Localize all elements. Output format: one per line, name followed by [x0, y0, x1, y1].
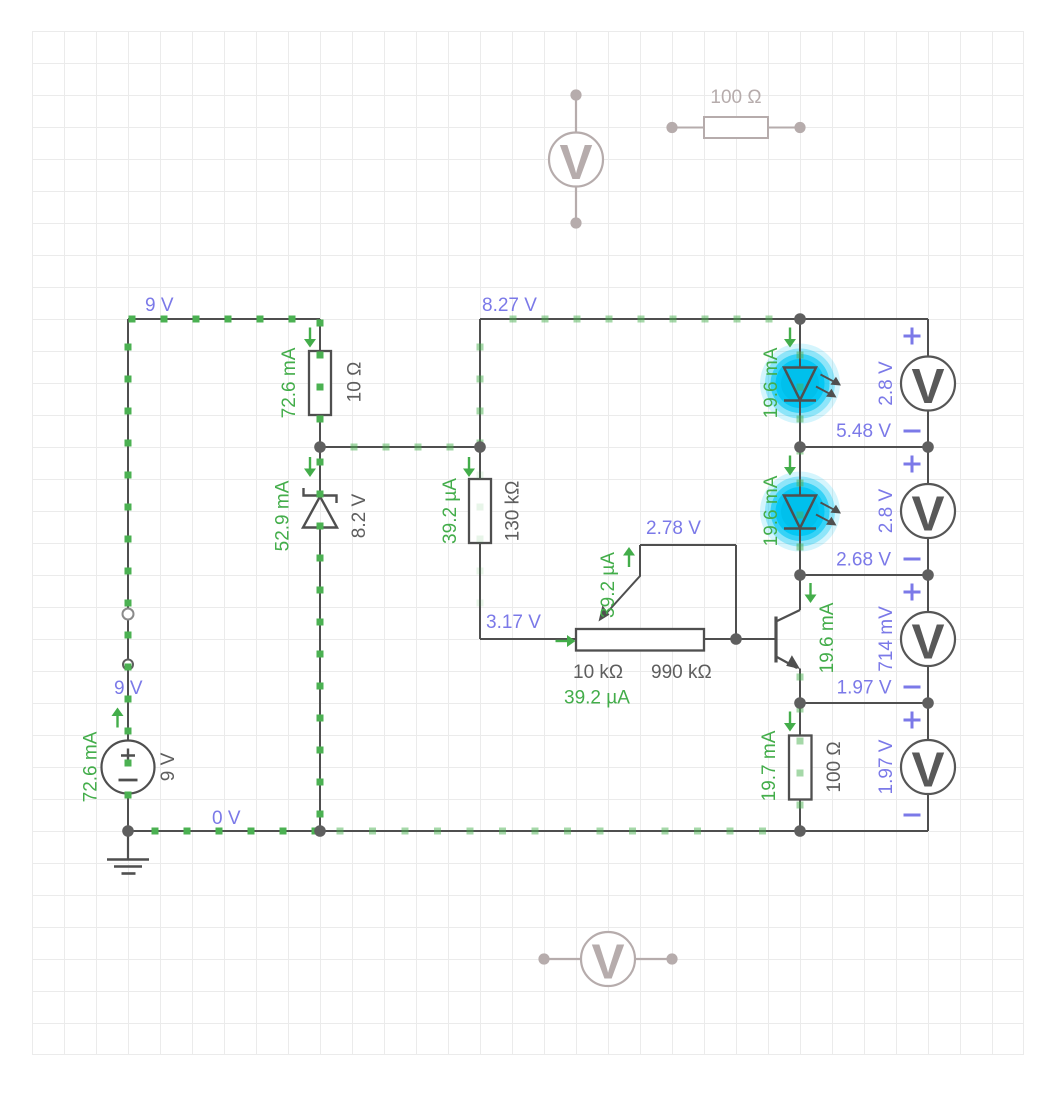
svg-text:130 kΩ: 130 kΩ [503, 481, 524, 542]
LED2 light arrows [816, 503, 839, 525]
transistor Q1 emitter lead [776, 657, 797, 669]
svg-text:8.2 V: 8.2 V [349, 493, 370, 538]
current dashes zener branch [317, 459, 324, 818]
transistor Q1 base bar [774, 617, 777, 663]
switch SW1 terminal top [123, 609, 134, 620]
current arrow into R4 [784, 712, 796, 732]
current dashes emitter wire [797, 674, 804, 713]
svg-text:9 V: 9 V [114, 678, 143, 699]
svg-text:9 V: 9 V [145, 295, 174, 316]
resistor R2 130k body [469, 479, 491, 543]
current arrow source current [112, 708, 124, 728]
resistor R4 100 ohm body [789, 736, 812, 800]
svg-text:1.97 V: 1.97 V [876, 739, 897, 794]
current dashes R1 branch [317, 320, 324, 423]
potentiometer R3 body [576, 629, 704, 651]
junction nodes [122, 313, 934, 837]
svg-text:990 kΩ: 990 kΩ [651, 662, 712, 683]
LED1 symbol [784, 368, 816, 401]
svg-text:52.9 mA: 52.9 mA [273, 480, 294, 551]
wire 0V bottom rail [128, 830, 928, 832]
svg-text:5.48 V: 5.48 V [836, 421, 891, 442]
svg-text:19.6 mA: 19.6 mA [761, 347, 782, 418]
zener diode D1 triangle [303, 497, 337, 528]
voltmeter minus mark y=687 [904, 686, 921, 689]
voltage source V1 minus [119, 779, 138, 782]
switch SW1 terminal bottom [123, 660, 133, 670]
resistor R1 10 ohm body [309, 351, 331, 415]
transistor Q1 collector lead [776, 610, 800, 622]
svg-text:19.6 mA: 19.6 mA [761, 475, 782, 546]
svg-text:2.8 V: 2.8 V [876, 488, 897, 533]
transistor Q1 emitter arrowhead [786, 655, 800, 669]
svg-text:19.7 mA: 19.7 mA [759, 730, 780, 801]
disconnected voltmeter VM5 top [549, 95, 603, 223]
wire 9V top horizontal [128, 318, 320, 320]
potentiometer R3 wiper arrowhead [599, 605, 610, 621]
current dashes 8.27V top wire [510, 316, 773, 323]
wire left vertical 9V source branch [127, 319, 129, 831]
current dashes R4 branch [797, 738, 804, 809]
svg-text:19.6 mA: 19.6 mA [817, 602, 838, 673]
current dashes bottom rail left [152, 828, 319, 835]
voltmeter plus mark y=720 [904, 712, 921, 729]
disconnected resistor R5 100 ohm [672, 117, 800, 138]
voltmeter plus mark y=464 [904, 456, 921, 473]
svg-text:39.2 µA: 39.2 µA [598, 552, 619, 618]
svg-text:2.78 V: 2.78 V [646, 518, 701, 539]
svg-text:9 V: 9 V [158, 752, 179, 781]
wire zener D1 branch [319, 447, 321, 831]
current dashes left wire [125, 344, 132, 799]
current arrow into R2 [463, 457, 475, 477]
current arrow into zener D1 [304, 457, 316, 477]
svg-text:2.68 V: 2.68 V [836, 550, 891, 571]
current dashes node link wire [351, 444, 454, 451]
current arrow into R1 [304, 328, 316, 348]
voltmeter VM2 [901, 484, 955, 541]
wire voltmeter taps [800, 447, 928, 703]
wire 8.27V top net [480, 319, 928, 447]
svg-text:100 Ω: 100 Ω [824, 741, 845, 792]
voltmeter plus mark y=336 [904, 328, 921, 345]
R5 terminals [666, 122, 805, 133]
disconnected voltmeter VM6 terminals [538, 953, 677, 964]
current arrow into pot R3 [556, 635, 576, 647]
current dashes bottom rail right [337, 828, 767, 835]
current arrow into LED1 [784, 328, 796, 348]
svg-text:39.2 µA: 39.2 µA [564, 688, 630, 709]
wire wiper net 2.78V [603, 545, 737, 639]
voltage source V1 plus [121, 749, 135, 763]
current dashes LED column [797, 352, 804, 551]
current dashes 9V top wire [129, 316, 296, 323]
wire collector stub [799, 575, 801, 610]
svg-text:10 Ω: 10 Ω [345, 362, 366, 403]
svg-text:72.6 mA: 72.6 mA [279, 347, 300, 418]
svg-text:10 kΩ: 10 kΩ [573, 662, 623, 683]
svg-text:3.17 V: 3.17 V [486, 612, 541, 633]
voltmeter VM1 [901, 357, 955, 414]
wire R4 branch stubs [799, 703, 801, 831]
wire voltmeter chain [927, 411, 929, 832]
disconnected voltmeter VM6 bottom [544, 932, 672, 986]
transistor Q1 base lead [736, 638, 775, 640]
voltmeter minus mark y=559 [904, 558, 921, 561]
svg-text:0 V: 0 V [212, 808, 241, 829]
current arrow into LED2 [784, 456, 796, 476]
glow of LED1 [760, 344, 840, 424]
glow of LED2 [760, 472, 840, 552]
svg-text:8.27 V: 8.27 V [482, 295, 537, 316]
wire emitter stub [799, 669, 801, 704]
svg-text:V: V [911, 486, 944, 541]
current dashes 130k branch [477, 472, 484, 607]
zener diode D1 cathode bar [304, 488, 337, 503]
svg-text:V: V [591, 934, 624, 989]
LED1 light arrows [816, 375, 839, 397]
wire R1 branch stubs [319, 319, 321, 447]
voltmeter VM3 [901, 612, 955, 669]
voltmeter minus mark y=815 [904, 814, 921, 817]
svg-text:100 Ω: 100 Ω [710, 87, 761, 108]
current dashes 8.27V drop wire [477, 344, 484, 447]
LED2 symbol [784, 496, 816, 529]
svg-text:V: V [559, 135, 592, 190]
wire 8.27V node link [320, 446, 480, 448]
svg-text:1.97 V: 1.97 V [837, 678, 892, 699]
current arrow collector current [805, 583, 817, 603]
voltmeter VM4 [901, 740, 955, 797]
wire pot right to base [704, 638, 774, 640]
svg-text:714 mV: 714 mV [876, 606, 897, 672]
svg-text:2.8 V: 2.8 V [876, 361, 897, 406]
current arrow wiper current [623, 547, 635, 567]
ground symbol [107, 831, 149, 874]
svg-text:V: V [911, 742, 944, 797]
wire LED column [799, 319, 801, 575]
disconnected voltmeter VM5 terminals [570, 89, 581, 228]
svg-text:V: V [911, 614, 944, 669]
wire 130k to pot left [480, 447, 576, 639]
voltmeter plus mark y=592 [904, 584, 921, 601]
svg-text:39.2 µA: 39.2 µA [440, 478, 461, 544]
voltage source V1 9V circle [102, 741, 155, 794]
svg-text:V: V [911, 359, 944, 414]
svg-text:72.6 mA: 72.6 mA [81, 731, 102, 802]
voltmeter minus mark y=431 [904, 430, 921, 433]
